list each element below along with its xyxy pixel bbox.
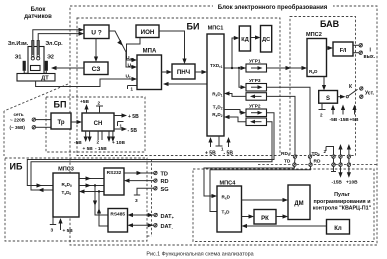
svg-text:- 5В: - 5В xyxy=(128,128,138,134)
svg-text:~ 220В: ~ 220В xyxy=(10,118,26,123)
svg-text:Э2: Э2 xyxy=(47,55,54,61)
svg-text:Э1: Э1 xyxy=(15,55,22,61)
power -15В chain xyxy=(338,144,342,178)
svg-text:ДС: ДС xyxy=(262,37,270,43)
svg-text:Блок электронного преобразован: Блок электронного преобразования xyxy=(218,4,328,11)
terminal TD0 upper xyxy=(308,155,311,159)
svg-text:+10В: +10В xyxy=(346,179,358,185)
power -5В below СН xyxy=(74,131,93,152)
wire Э1 bar stub xyxy=(24,71,28,73)
wire TD0 between rows xyxy=(309,158,312,163)
terminal Уст 1 xyxy=(360,87,363,91)
wire Кл to МПС4 xyxy=(247,225,327,227)
enclosure: sensor area left boundary xyxy=(3,111,5,156)
wire МПС1 feedback to МПА xyxy=(167,83,207,85)
svg-text:TD: TD xyxy=(284,159,291,165)
ДТ enclosure xyxy=(17,74,55,82)
svg-text:Тр: Тр xyxy=(57,120,64,126)
power +10В below СН xyxy=(107,131,126,146)
wire МПС3 TxD long run to УГР2 reverse xyxy=(31,122,272,190)
svg-text:DAT-: DAT- xyxy=(161,224,174,230)
wire РК to ДМ xyxy=(276,216,284,218)
block S xyxy=(319,91,338,104)
enclosure: БИ box xyxy=(77,18,280,156)
wire МПА to ПНЧ xyxy=(162,71,168,73)
svg-text:RD: RD xyxy=(161,179,169,185)
wire TXD down to УГР3 xyxy=(239,68,242,87)
svg-text:Пульт: Пульт xyxy=(334,192,350,198)
block ИОН xyxy=(136,25,159,38)
svg-text:+ 5В: + 5В xyxy=(63,228,74,234)
ground 3 below МПС3 xyxy=(50,218,56,234)
enclosure: ИБ interface box xyxy=(5,158,147,241)
wire TXD up to КД xyxy=(232,38,235,68)
wire СН -5В output xyxy=(114,127,137,134)
wire УГР1 to МПС2 RxD xyxy=(267,67,304,69)
svg-text:МПС1: МПС1 xyxy=(208,26,224,32)
block КД xyxy=(239,26,250,51)
svg-text:Уст.: Уст. xyxy=(365,91,375,97)
svg-text:ПНЧ: ПНЧ xyxy=(177,69,190,76)
ground 2 at connector row xyxy=(324,147,334,155)
terminal Уст 2 xyxy=(360,95,363,99)
svg-text:МПС2: МПС2 xyxy=(306,32,322,38)
wire МПС3 to RS232 line2 xyxy=(79,185,104,187)
svg-text:+5В: +5В xyxy=(80,99,89,105)
wire F/I output 2 xyxy=(353,52,359,54)
wire МПС1 TXD bus xyxy=(224,67,246,69)
terminal TD lower xyxy=(293,163,296,167)
block МПС1 xyxy=(207,34,224,136)
svg-text:+ 5В: + 5В xyxy=(128,114,139,120)
wire МПС3 to RS232 line1 xyxy=(79,178,104,180)
enclosure: lower partition dashed line xyxy=(258,164,377,166)
svg-text:РК: РК xyxy=(261,216,269,222)
svg-text:3: 3 xyxy=(135,198,138,204)
arrowhead into УГР1 xyxy=(241,66,247,70)
block Кл xyxy=(327,220,350,235)
wire ДТ to МПА Uт input xyxy=(36,79,133,87)
power +5В arrow xyxy=(352,105,356,115)
node TXD junction 1 xyxy=(231,67,233,69)
terminal сеть 1 xyxy=(32,118,35,122)
terminal I out 2 xyxy=(359,51,362,55)
enclosure: sensor area diagonal boundary xyxy=(4,84,68,111)
block МПА xyxy=(137,55,162,90)
isolator УГР2 reverse xyxy=(246,118,267,126)
wire УГР3 reverse to МПС1 RxD1 xyxy=(229,94,246,97)
wire electrode2 to U? xyxy=(38,34,79,55)
ground 2 below СН xyxy=(95,131,107,152)
wire ИОН to МПА Uоп input xyxy=(127,38,141,61)
svg-text:2: 2 xyxy=(98,101,101,106)
wire RS485 DAT+ xyxy=(128,213,154,217)
block СН xyxy=(82,113,114,131)
ground 1 at МПА xyxy=(128,86,138,92)
svg-text:Блок: Блок xyxy=(31,7,46,13)
svg-text:-5В: -5В xyxy=(74,140,82,146)
block ДМ xyxy=(288,185,310,220)
wire S to switch К xyxy=(338,96,342,98)
svg-text:программирования и: программирования и xyxy=(313,199,370,205)
electrode Э2 black bar xyxy=(45,61,48,71)
svg-text:- 5В: - 5В xyxy=(224,151,234,157)
block RS485 xyxy=(108,209,128,233)
svg-text:БП: БП xyxy=(54,100,67,110)
block ДС xyxy=(261,26,272,53)
block СЗ xyxy=(84,62,108,75)
enclosure: Пульт box xyxy=(193,169,374,242)
wire electrode1 to U? xyxy=(33,30,80,55)
enclosure: ИБ inner right wall xyxy=(151,159,153,236)
terminal TD xyxy=(154,171,157,175)
svg-text:вых.: вых. xyxy=(364,54,376,60)
ground 1 at СН right xyxy=(118,122,124,129)
enclosure: outer block (Блок электронного преобразования) xyxy=(70,6,377,245)
svg-text:-15В: -15В xyxy=(339,117,350,123)
wire ИОН to ПНЧ xyxy=(159,31,185,59)
wire RD0 between rows xyxy=(294,158,297,163)
terminal RD xyxy=(154,179,157,183)
terminal RD0 upper xyxy=(293,155,296,159)
svg-text:2: 2 xyxy=(97,140,100,145)
svg-text:БАВ: БАВ xyxy=(320,19,340,29)
wire Э2 bar stub xyxy=(44,71,46,73)
svg-text:датчиков: датчиков xyxy=(24,14,52,20)
switch К xyxy=(346,84,357,98)
svg-text:Кл: Кл xyxy=(334,226,342,232)
power +5В into МПС1 xyxy=(205,137,216,157)
svg-text:S: S xyxy=(326,96,330,102)
block РК xyxy=(254,210,276,225)
terminal RD lower xyxy=(309,163,312,167)
svg-text:SG: SG xyxy=(161,187,169,193)
wire RS232 RD in xyxy=(129,180,154,182)
wire TD lower to МПС4 RxD xyxy=(204,167,294,197)
wire F/I output 1 xyxy=(353,44,359,46)
block МПС2 xyxy=(307,39,327,77)
wire СЗ to sensor electrode xyxy=(55,67,84,69)
terminal DAT+ xyxy=(154,213,157,217)
svg-text:DAT+: DAT+ xyxy=(161,214,175,220)
power -5В into МПС1 xyxy=(224,137,234,157)
electrode rod 1 xyxy=(31,41,34,61)
sensor vessel body xyxy=(28,47,44,75)
node junction on line2 xyxy=(94,184,96,186)
ground 2 below S xyxy=(319,103,326,117)
sensor inner window xyxy=(31,66,41,71)
svg-text:ИОН: ИОН xyxy=(141,29,155,36)
node junction on return xyxy=(98,190,100,192)
svg-text:-5В: -5В xyxy=(330,117,338,123)
wire СН +5В output xyxy=(114,113,139,120)
svg-text:БИ: БИ xyxy=(187,22,200,32)
wire RS232 TD out xyxy=(124,172,154,174)
node TXD junction 2 xyxy=(238,67,240,69)
wire ПНЧ to МПС1 xyxy=(195,71,203,73)
svg-text:+5В: +5В xyxy=(350,117,359,123)
power -5В into S xyxy=(331,105,335,115)
wire branch from RS485 out xyxy=(99,192,108,227)
terminal SG xyxy=(154,187,157,191)
wire МПС2 to F/I xyxy=(327,47,330,49)
svg-text:U ?: U ? xyxy=(91,30,102,37)
terminal DAT- xyxy=(154,224,157,228)
block RS232 xyxy=(104,168,124,195)
svg-text:(~ 36В): (~ 36В) xyxy=(10,125,26,130)
svg-text:F/I: F/I xyxy=(340,48,347,54)
svg-text:+ 5В: + 5В xyxy=(83,146,94,152)
op block U? xyxy=(84,25,109,39)
svg-text:сеть: сеть xyxy=(14,112,24,117)
block Тр xyxy=(51,113,71,129)
svg-text:КД: КД xyxy=(241,37,248,43)
electrode Э1 black bar xyxy=(23,61,26,71)
svg-text:Эл.Изм.: Эл.Изм. xyxy=(8,41,29,47)
svg-text:RS232: RS232 xyxy=(107,170,122,176)
terminal I out 1 xyxy=(359,44,362,48)
terminal сеть 2 xyxy=(32,126,35,130)
wire U? to МПА Uи input xyxy=(109,31,133,67)
svg-text:МПА: МПА xyxy=(143,49,157,55)
wire SG to ground 3 xyxy=(134,188,154,204)
svg-text:МПС3: МПС3 xyxy=(58,167,74,173)
wire МПС2 down to S xyxy=(323,77,325,87)
svg-text:+ 5В: + 5В xyxy=(205,151,216,157)
block МПС3 xyxy=(53,173,79,217)
svg-text:Рис.1 Функциональная схема ана: Рис.1 Функциональная схема анализатора xyxy=(146,252,253,258)
power +5В into МПС3 xyxy=(58,218,73,234)
svg-text:RS485: RS485 xyxy=(110,212,125,218)
block МПС4 xyxy=(217,186,242,232)
isolator УГР1 xyxy=(246,64,267,72)
block ПНЧ xyxy=(172,64,195,79)
power -15В arrow xyxy=(341,105,345,115)
wire RS232 to МПС3 return xyxy=(84,191,104,193)
wire RS485 DAT- xyxy=(128,223,154,227)
svg-text:TD: TD xyxy=(161,172,168,178)
electrode rod 2 xyxy=(37,41,40,61)
ground 2 above СН xyxy=(96,101,103,114)
title: Блок электронного преобразования xyxy=(213,1,333,11)
wire КД to ДС xyxy=(251,37,257,39)
wire МПС4 to РК xyxy=(242,216,250,218)
svg-text:ДМ: ДМ xyxy=(294,201,303,207)
wire Тр to СН xyxy=(71,121,78,123)
svg-text:ДТ: ДТ xyxy=(41,76,49,82)
wire U? down to СЗ xyxy=(95,39,97,58)
svg-text:2: 2 xyxy=(324,149,327,154)
svg-text:2: 2 xyxy=(320,113,323,118)
wire RD lower to МПС4 TxD xyxy=(210,167,311,212)
svg-text:- 15В: - 15В xyxy=(95,146,107,152)
wire МПС1 TxD2 to УГР2 xyxy=(224,110,242,113)
svg-text:СН: СН xyxy=(94,121,103,127)
svg-text:+ 10В: + 10В xyxy=(112,140,125,146)
wire сеть1 to Тр xyxy=(36,119,51,121)
svg-text:ИБ: ИБ xyxy=(10,162,23,172)
enclosure: БП power-supply box xyxy=(46,97,145,152)
wire УГР2 reverse to МПС1 RxD2 xyxy=(229,117,246,122)
isolator УГР3 forward xyxy=(246,84,267,92)
wire УГР2 forward down to long run into МПС3 xyxy=(27,113,274,186)
power +5В above СН xyxy=(80,99,89,113)
isolator УГР3 reverse xyxy=(246,93,267,101)
power chain ground wire xyxy=(331,155,336,172)
svg-text:Эл.Ср.: Эл.Ср. xyxy=(45,41,63,47)
block F/I xyxy=(333,42,353,56)
wire МПС4 to ДМ xyxy=(242,199,284,201)
wire УГР3 forward to TD0 connector xyxy=(267,87,311,155)
wire сеть2 to Тр xyxy=(36,126,51,128)
svg-text:-15В: -15В xyxy=(332,179,343,185)
power +10В chain xyxy=(347,144,351,178)
svg-text:СЗ: СЗ xyxy=(92,66,101,73)
wire branch to RS485 in xyxy=(95,186,108,216)
isolator УГР2 forward xyxy=(246,109,267,117)
svg-text:RD: RD xyxy=(314,159,321,165)
svg-text:контроля "КВАРЦ-П1": контроля "КВАРЦ-П1" xyxy=(313,206,372,212)
svg-text:3: 3 xyxy=(51,228,54,234)
wire RD0 connector to УГР3 reverse xyxy=(267,96,296,154)
enclosure: БАВ box xyxy=(290,17,356,156)
ground 1 below МПС1 xyxy=(216,136,225,152)
